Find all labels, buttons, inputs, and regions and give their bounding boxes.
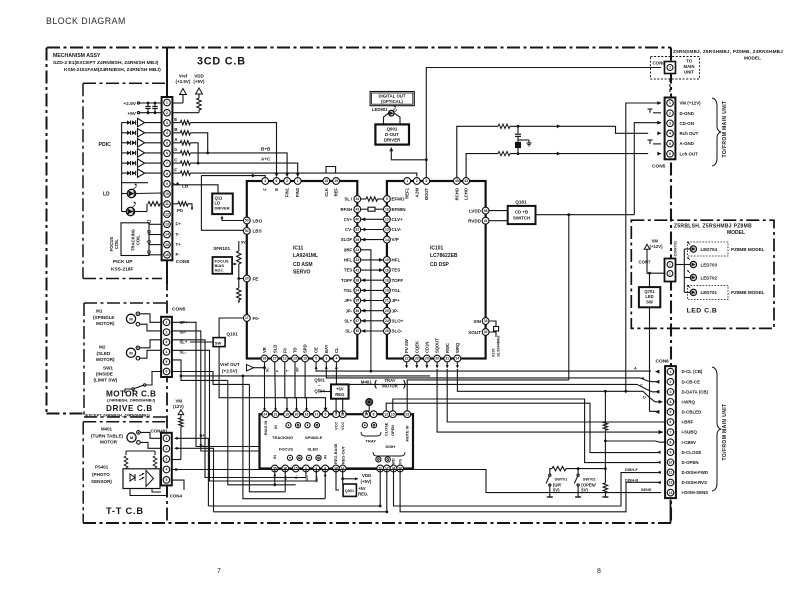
svg-text:JP-: JP- <box>392 308 400 313</box>
svg-text:20: 20 <box>295 412 299 416</box>
svg-text:PS401: PS401 <box>95 465 109 470</box>
wire into IC11 pin4 F <box>201 176 265 178</box>
svg-text:32: 32 <box>355 228 359 232</box>
svg-text:1: 1 <box>669 66 671 70</box>
svg-text:I-SUBQ: I-SUBQ <box>682 430 698 435</box>
svg-text:3: 3 <box>670 390 672 394</box>
svg-text:VDD: VDD <box>362 473 371 478</box>
svg-text:SQOUT: SQOUT <box>435 338 440 353</box>
svg-text:F: F <box>174 167 177 172</box>
svg-text:CD-ON: CD-ON <box>680 121 694 126</box>
svg-text:(TURN TABLE): (TURN TABLE) <box>91 434 124 439</box>
wire Q701 to D-CBLED <box>650 307 659 411</box>
svg-text:15: 15 <box>303 357 307 361</box>
IC101 pin 13 CLV- <box>384 226 391 233</box>
svg-text:2: 2 <box>416 179 418 183</box>
svg-text:5: 5 <box>670 410 672 414</box>
svg-text:6: 6 <box>166 370 168 374</box>
svg-text:PU SW: PU SW <box>404 339 409 353</box>
PDIC photodiode/op-amp row 5 <box>122 162 127 164</box>
svg-text:(OPTICAL): (OPTICAL) <box>381 99 403 104</box>
svg-text:VCC: VCC <box>334 422 339 430</box>
svg-text:PDIC: PDIC <box>99 142 112 148</box>
svg-text:TES: TES <box>344 268 352 273</box>
label LB arrow at pin9 <box>176 182 180 185</box>
wire D-CB-CE serial B <box>326 362 658 382</box>
Focus bias adj box <box>213 257 233 274</box>
svg-text:MECHANISM ASSY: MECHANISM ASSY <box>53 53 101 59</box>
svg-text:D-DISH-RVS: D-DISH-RVS <box>682 480 708 485</box>
svg-text:1: 1 <box>166 321 168 325</box>
svg-text:TO: TO <box>686 59 693 64</box>
gnd of mute network <box>518 139 529 141</box>
svg-text:LD: LD <box>103 191 110 197</box>
svg-text:E: E <box>174 117 177 122</box>
svg-text:BOUT: BOUT <box>424 188 429 200</box>
wire CON8 top solid <box>166 48 168 98</box>
svg-text:45: 45 <box>455 179 459 183</box>
svg-text:DISH-F: DISH-F <box>625 468 638 472</box>
IC11 pin LBO <box>243 217 250 224</box>
svg-text:44: 44 <box>355 197 359 201</box>
svg-text:IN: IN <box>273 425 278 429</box>
capacitor C bypass 1 <box>147 103 149 106</box>
resistor PS401 right <box>153 456 157 468</box>
svg-text:D-CBLED: D-CBLED <box>682 410 702 415</box>
IC101 pin 16 TES <box>384 267 391 274</box>
motor M401 tray symbol <box>366 399 373 406</box>
IC101 pin RVDD <box>482 217 489 224</box>
svg-text:31: 31 <box>445 357 449 361</box>
svg-text:40: 40 <box>355 218 359 222</box>
svg-text:4: 4 <box>335 357 337 361</box>
svg-text:BIAS IN: BIAS IN <box>263 421 268 435</box>
IC101 pin 24 SLO+ <box>384 317 391 324</box>
svg-text:A-GND: A-GND <box>680 141 694 146</box>
wire VM to CON7 <box>647 249 665 273</box>
wire I-BRF from RWC <box>447 369 666 422</box>
svg-text:CQEK: CQEK <box>414 341 419 353</box>
svg-text:15: 15 <box>294 467 298 471</box>
resistor between SL I and EFMO <box>361 198 366 200</box>
svg-text:XIN: XIN <box>473 319 481 324</box>
svg-text:XOUT: XOUT <box>468 330 481 335</box>
svg-text:13: 13 <box>669 491 673 495</box>
driver top pins <box>262 411 269 418</box>
svg-text:CD ASM: CD ASM <box>293 262 313 268</box>
wire spindle drive 2 <box>173 331 260 451</box>
svg-text:20: 20 <box>385 309 389 313</box>
svg-text:1: 1 <box>669 101 671 105</box>
svg-text:6: 6 <box>670 420 672 424</box>
svg-text:Lch OUT: Lch OUT <box>680 151 699 156</box>
resistor R-C <box>173 162 181 164</box>
svg-text:SW701: SW701 <box>555 476 569 481</box>
svg-text:13: 13 <box>293 357 297 361</box>
svg-text:SL-: SL- <box>345 329 352 334</box>
svg-text:TGL: TGL <box>344 288 353 293</box>
svg-text:38: 38 <box>355 278 359 282</box>
brace TRAY <box>361 432 381 436</box>
svg-text:26: 26 <box>263 357 267 361</box>
wire Rch OUT <box>657 131 661 135</box>
svg-text:CON9: CON9 <box>653 61 666 66</box>
svg-text:11: 11 <box>165 202 169 206</box>
svg-text:9: 9 <box>670 450 672 454</box>
svg-text:TES: TES <box>392 268 401 273</box>
svg-text:13: 13 <box>384 412 388 416</box>
svg-text:DISH: DISH <box>386 444 396 449</box>
IC101 pin 10 EFMIN <box>384 206 391 213</box>
svg-text:24: 24 <box>355 248 359 252</box>
svg-text:COIL: COIL <box>114 239 119 249</box>
svg-text:SL+: SL+ <box>344 318 352 323</box>
IC11 bottom pins VR SLD F0 TD SPD CE BAT CL <box>261 355 268 362</box>
wire C row A+C sum to FIN2 <box>197 162 200 165</box>
IC11 pin FE <box>243 275 250 282</box>
svg-text:Z5RNSMBJ, Z5RSHMBJ, PZ5MB, Z4R: Z5RNSMBJ, Z5RSHMBJ, PZ5MB, Z4RNSHMBJ <box>673 49 783 54</box>
wire B row <box>190 133 207 153</box>
wire 5V stub <box>238 241 240 245</box>
svg-text:REG: REG <box>335 392 344 397</box>
svg-text:D-CLOSE: D-CLOSE <box>682 450 702 455</box>
svg-text:32: 32 <box>484 330 488 334</box>
svg-text:FOCUS: FOCUS <box>279 447 293 452</box>
resistor R-B <box>173 132 181 134</box>
svg-text:D-GND: D-GND <box>680 111 694 116</box>
svg-text:33: 33 <box>484 319 488 323</box>
coil box <box>121 223 149 256</box>
svg-text:3: 3 <box>669 122 671 126</box>
wire SW1 to CON5 <box>146 372 162 386</box>
svg-text:MODEL: MODEL <box>727 230 745 236</box>
wire tray motor to pin14 <box>368 405 370 411</box>
crystal X101 16.9344MHz <box>489 321 496 326</box>
wire Q701 top <box>649 273 651 287</box>
svg-text:1: 1 <box>165 437 167 441</box>
svg-text:REF: REF <box>334 188 339 197</box>
resistor R-F <box>173 172 181 174</box>
border 3CD C.B board outline right <box>670 48 672 524</box>
svg-text:22: 22 <box>405 357 409 361</box>
wire stub below IC101 PU SW <box>406 362 408 367</box>
coil winding wire 1 <box>149 223 162 225</box>
svg-text:7: 7 <box>217 568 221 575</box>
svg-text:FE: FE <box>253 276 259 281</box>
svg-text:SFR101: SFR101 <box>213 246 230 251</box>
wire 5VREG left stub <box>320 391 331 393</box>
svg-text:T+: T+ <box>176 242 182 247</box>
resistor R-pd-right and PD label <box>173 203 179 205</box>
svg-text:b: b <box>174 147 177 152</box>
svg-text:37: 37 <box>355 319 359 323</box>
wire row TOFF <box>361 279 384 281</box>
connector CON8 <box>162 97 173 260</box>
wire stub below IC101 CD1N <box>426 362 428 367</box>
svg-text:13: 13 <box>165 223 169 227</box>
IC11 pin F0- <box>243 315 250 322</box>
svg-text:SP-: SP- <box>180 330 188 335</box>
svg-text:DIGITAL OUT: DIGITAL OUT <box>378 94 405 99</box>
svg-text:24: 24 <box>263 412 267 416</box>
svg-text:53: 53 <box>245 219 249 223</box>
svg-text:16: 16 <box>305 412 309 416</box>
wire A row <box>190 143 198 163</box>
svg-text:LC78622EB: LC78622EB <box>430 253 458 259</box>
wire SL- drive <box>173 340 307 478</box>
svg-text:3: 3 <box>425 179 427 183</box>
svg-text:F-: F- <box>176 252 181 257</box>
wire CON8 bottom solid <box>166 260 168 284</box>
svg-text:CON701: CON701 <box>673 240 678 256</box>
svg-text:SPD: SPD <box>303 344 308 353</box>
svg-text:41: 41 <box>484 219 488 223</box>
wire row HFL <box>361 259 384 261</box>
PDIC photodiode/op-amp row 2 <box>122 132 127 134</box>
svg-text:(12V): (12V) <box>173 404 184 409</box>
wire BOUT up to CON9 <box>426 68 661 178</box>
svg-text:Q901: Q901 <box>387 127 398 132</box>
svg-text:UNIT: UNIT <box>684 70 694 75</box>
wire tray B+ to CON401 <box>379 469 381 507</box>
wire I-CB9V from pull-up junction <box>605 441 666 442</box>
svg-text:LBS: LBS <box>253 229 262 234</box>
svg-text:D-CL (CB): D-CL (CB) <box>682 369 703 374</box>
border LED model box <box>631 220 774 328</box>
coil winding wire 4 <box>149 254 162 256</box>
svg-text:RVDD: RVDD <box>468 219 482 224</box>
svg-text:10: 10 <box>165 192 169 196</box>
svg-text:33: 33 <box>355 258 359 262</box>
svg-text:8RF: 8RF <box>344 247 352 252</box>
svg-text:4: 4 <box>670 400 672 404</box>
svg-text:M1: M1 <box>96 309 103 314</box>
svg-text:SW: SW <box>646 299 653 304</box>
wire M2 to CON5 pins <box>140 340 162 348</box>
svg-text:2: 2 <box>166 330 168 334</box>
svg-text:JP-: JP- <box>346 308 353 313</box>
wire junction to Q901 <box>425 158 428 161</box>
svg-text:43: 43 <box>464 179 468 183</box>
IC motor driver body <box>260 414 414 468</box>
svg-text:2: 2 <box>670 380 672 384</box>
LED LED701 <box>684 291 690 293</box>
border pickup inner box <box>83 82 165 84</box>
svg-text:FIN2: FIN2 <box>295 187 300 197</box>
svg-text:30: 30 <box>355 329 359 333</box>
svg-text:30: 30 <box>435 357 439 361</box>
svg-text:34: 34 <box>355 289 359 293</box>
svg-text:RFSH: RFSH <box>340 207 352 212</box>
resistor R-vdd <box>197 98 201 110</box>
wire CD+B to driver horizontal <box>407 380 569 414</box>
svg-text:TD: TD <box>293 347 298 353</box>
IC101 pin 14 V/P <box>384 236 391 243</box>
dotted box LED704 PZ8MB <box>688 242 729 256</box>
svg-text:17: 17 <box>315 412 319 416</box>
coil winding wire 2 <box>149 234 162 236</box>
svg-text:A: A <box>634 366 637 370</box>
svg-text:SERVO: SERVO <box>293 270 311 276</box>
svg-text:MOTOR: MOTOR <box>100 440 118 445</box>
svg-text:VR: VR <box>262 347 267 353</box>
svg-text:CON8: CON8 <box>176 259 190 265</box>
svg-text:(+2.5V): (+2.5V) <box>222 369 238 374</box>
wire CD-ON from Q181 <box>634 123 661 215</box>
resistor R pull SW <box>603 483 607 493</box>
svg-text:8: 8 <box>166 172 168 176</box>
svg-text:(SLED: (SLED <box>97 351 111 356</box>
wire I-SUBQ from SQOUT <box>437 369 663 432</box>
wire E row to IC11 pin6 <box>190 123 276 175</box>
svg-text:I-BRF: I-BRF <box>682 420 694 425</box>
IC11 pins CLK REF <box>323 178 330 185</box>
wire VR to driver <box>264 362 266 410</box>
wire focus IN drive <box>228 380 296 484</box>
PDIC photodiode/op-amp row 1 <box>122 122 127 124</box>
wire spindle drive 1 <box>173 322 260 446</box>
svg-text:I-WRQ: I-WRQ <box>682 399 696 404</box>
svg-text:43: 43 <box>355 207 359 211</box>
svg-text:REG.: REG. <box>358 491 368 496</box>
svg-text:(INSIDE: (INSIDE <box>96 372 113 377</box>
svg-text:18: 18 <box>385 278 389 282</box>
wire RVDD to Q181 <box>489 220 508 222</box>
wire stub below IC101 RWC <box>446 362 448 367</box>
wire to VDD +5V <box>343 478 356 480</box>
svg-text:5V): 5V) <box>581 488 588 493</box>
svg-text:SPINDLE: SPINDLE <box>305 435 323 440</box>
svg-text:42: 42 <box>355 268 359 272</box>
resistor R-pd-left <box>148 202 160 206</box>
svg-text:SP+: SP+ <box>180 320 189 325</box>
svg-text:FIN1: FIN1 <box>285 187 290 197</box>
svg-text:4: 4 <box>166 131 168 135</box>
border MOTOR/DRIVE C.B box <box>84 302 167 304</box>
svg-text:EFMIN: EFMIN <box>392 207 406 212</box>
svg-text:A+C: A+C <box>261 157 271 162</box>
svg-text:MOTOR): MOTOR) <box>96 321 115 326</box>
svg-text:6: 6 <box>276 179 278 183</box>
svg-text:MOTOR: MOTOR <box>382 384 398 389</box>
svg-text:CLV-: CLV- <box>392 227 402 232</box>
svg-text:10: 10 <box>385 207 389 211</box>
svg-text:1: 1 <box>166 101 168 105</box>
wire PS401 bottom <box>130 489 167 496</box>
svg-text:LED C.B: LED C.B <box>687 308 718 315</box>
switch SW701 UP 5V <box>604 441 606 469</box>
svg-text:CLK: CLK <box>324 188 329 197</box>
IC101 top pins REF1 4.2M BOUT RCHO LCHO <box>404 178 411 185</box>
svg-text:5V: 5V <box>241 241 246 245</box>
transistor Q11 LD DRIVER <box>212 194 233 215</box>
IC11 pin LBS <box>243 228 250 235</box>
svg-text:3: 3 <box>166 121 168 125</box>
wire F+ drive <box>249 384 285 491</box>
wire LBO to Q11 <box>222 218 243 221</box>
connector CON9 <box>651 57 700 80</box>
svg-text:20: 20 <box>245 277 249 281</box>
transistor Q501 regulator <box>342 479 344 484</box>
svg-text:B: B <box>642 377 645 381</box>
capacitor C-mute network <box>517 126 519 133</box>
svg-text:JP+: JP+ <box>344 298 352 303</box>
IC101 pin 20 JP- <box>384 307 391 314</box>
svg-text:28: 28 <box>415 357 419 361</box>
svg-text:13: 13 <box>385 228 389 232</box>
svg-text:PICK UP: PICK UP <box>113 259 133 265</box>
IC101 pin 25 SLO- <box>384 328 391 335</box>
wire F0- to Q101 <box>219 318 243 338</box>
wire PD row + resistor <box>135 211 147 213</box>
wire D-DATA serial C <box>336 362 658 392</box>
resistor R-E <box>173 122 181 124</box>
wire row SLOF <box>361 239 384 241</box>
svg-text:T-T C.B: T-T C.B <box>106 506 144 516</box>
svg-text:Vref: Vref <box>179 74 188 79</box>
wire LVDD to Q181 <box>489 210 508 212</box>
svg-text:CLOSE: CLOSE <box>384 422 389 436</box>
svg-text:CON5: CON5 <box>652 164 666 170</box>
svg-text:CD1N: CD1N <box>425 342 430 353</box>
svg-text:1: 1 <box>670 370 672 374</box>
svg-text:+5V: +5V <box>127 111 136 117</box>
svg-text:TRAY: TRAY <box>384 378 395 383</box>
svg-text:LCHO: LCHO <box>464 187 469 200</box>
svg-text:52: 52 <box>245 229 249 233</box>
svg-text:M401: M401 <box>361 380 373 385</box>
wire tray B- to CON401 <box>386 469 388 512</box>
wire M401 to CON401 <box>140 432 161 438</box>
svg-text:SENSOR): SENSOR) <box>91 479 112 484</box>
svg-text:4: 4 <box>669 132 671 136</box>
border 3CD C.B board outline top <box>47 46 671 48</box>
wire F row long run to IC101 REF1 <box>190 173 416 176</box>
IC101 pin XOUT <box>482 329 489 336</box>
connector CON401 <box>161 433 172 486</box>
wire DISH FWD to CON6 pin11 <box>394 469 662 507</box>
svg-text:8: 8 <box>373 412 375 416</box>
svg-text:D-CB-CE: D-CB-CE <box>682 379 701 384</box>
svg-text:25: 25 <box>385 329 389 333</box>
wire VM +12V vertical <box>626 103 661 391</box>
svg-text:M401: M401 <box>101 427 113 432</box>
svg-text:DRIVER: DRIVER <box>384 138 401 143</box>
brace TO/FROM MAIN UNIT lower <box>712 367 721 491</box>
svg-text:8: 8 <box>597 568 601 575</box>
svg-text:I-CB9V: I-CB9V <box>682 440 696 445</box>
svg-text:REF1: REF1 <box>405 187 410 198</box>
svg-text:10: 10 <box>669 461 673 465</box>
resistor R-b <box>173 152 181 154</box>
wire stub below IC101 WRQ <box>456 362 458 367</box>
PDIC photodiode/op-amp row 6 <box>122 172 127 174</box>
svg-text:V/P: V/P <box>392 237 399 242</box>
svg-text:Vref OUT: Vref OUT <box>220 362 240 367</box>
svg-text:6: 6 <box>166 152 168 156</box>
IC101 pin 9 EFMO <box>384 196 391 203</box>
svg-text:(EXCEPT Z4RNBSH, Z4RNSHMBJ): (EXCEPT Z4RNBSH, Z4RNSHMBJ) <box>85 412 151 417</box>
svg-text:LED701: LED701 <box>701 290 718 295</box>
IC101 pin 12 CLV+ <box>384 216 391 223</box>
svg-text:F+: F+ <box>176 222 182 227</box>
svg-text:KSM-2151FAM(Z4RN/BSH, Z4RN/SH: KSM-2151FAM(Z4RN/BSH, Z4RN/SH MBJ) <box>64 67 161 73</box>
svg-text:CV-: CV- <box>345 227 353 232</box>
IC101 pin 15 HFL <box>384 257 391 264</box>
svg-text:12: 12 <box>165 212 169 216</box>
svg-text:DRIVER: DRIVER <box>215 206 230 211</box>
svg-text:Rch OUT: Rch OUT <box>680 131 699 136</box>
